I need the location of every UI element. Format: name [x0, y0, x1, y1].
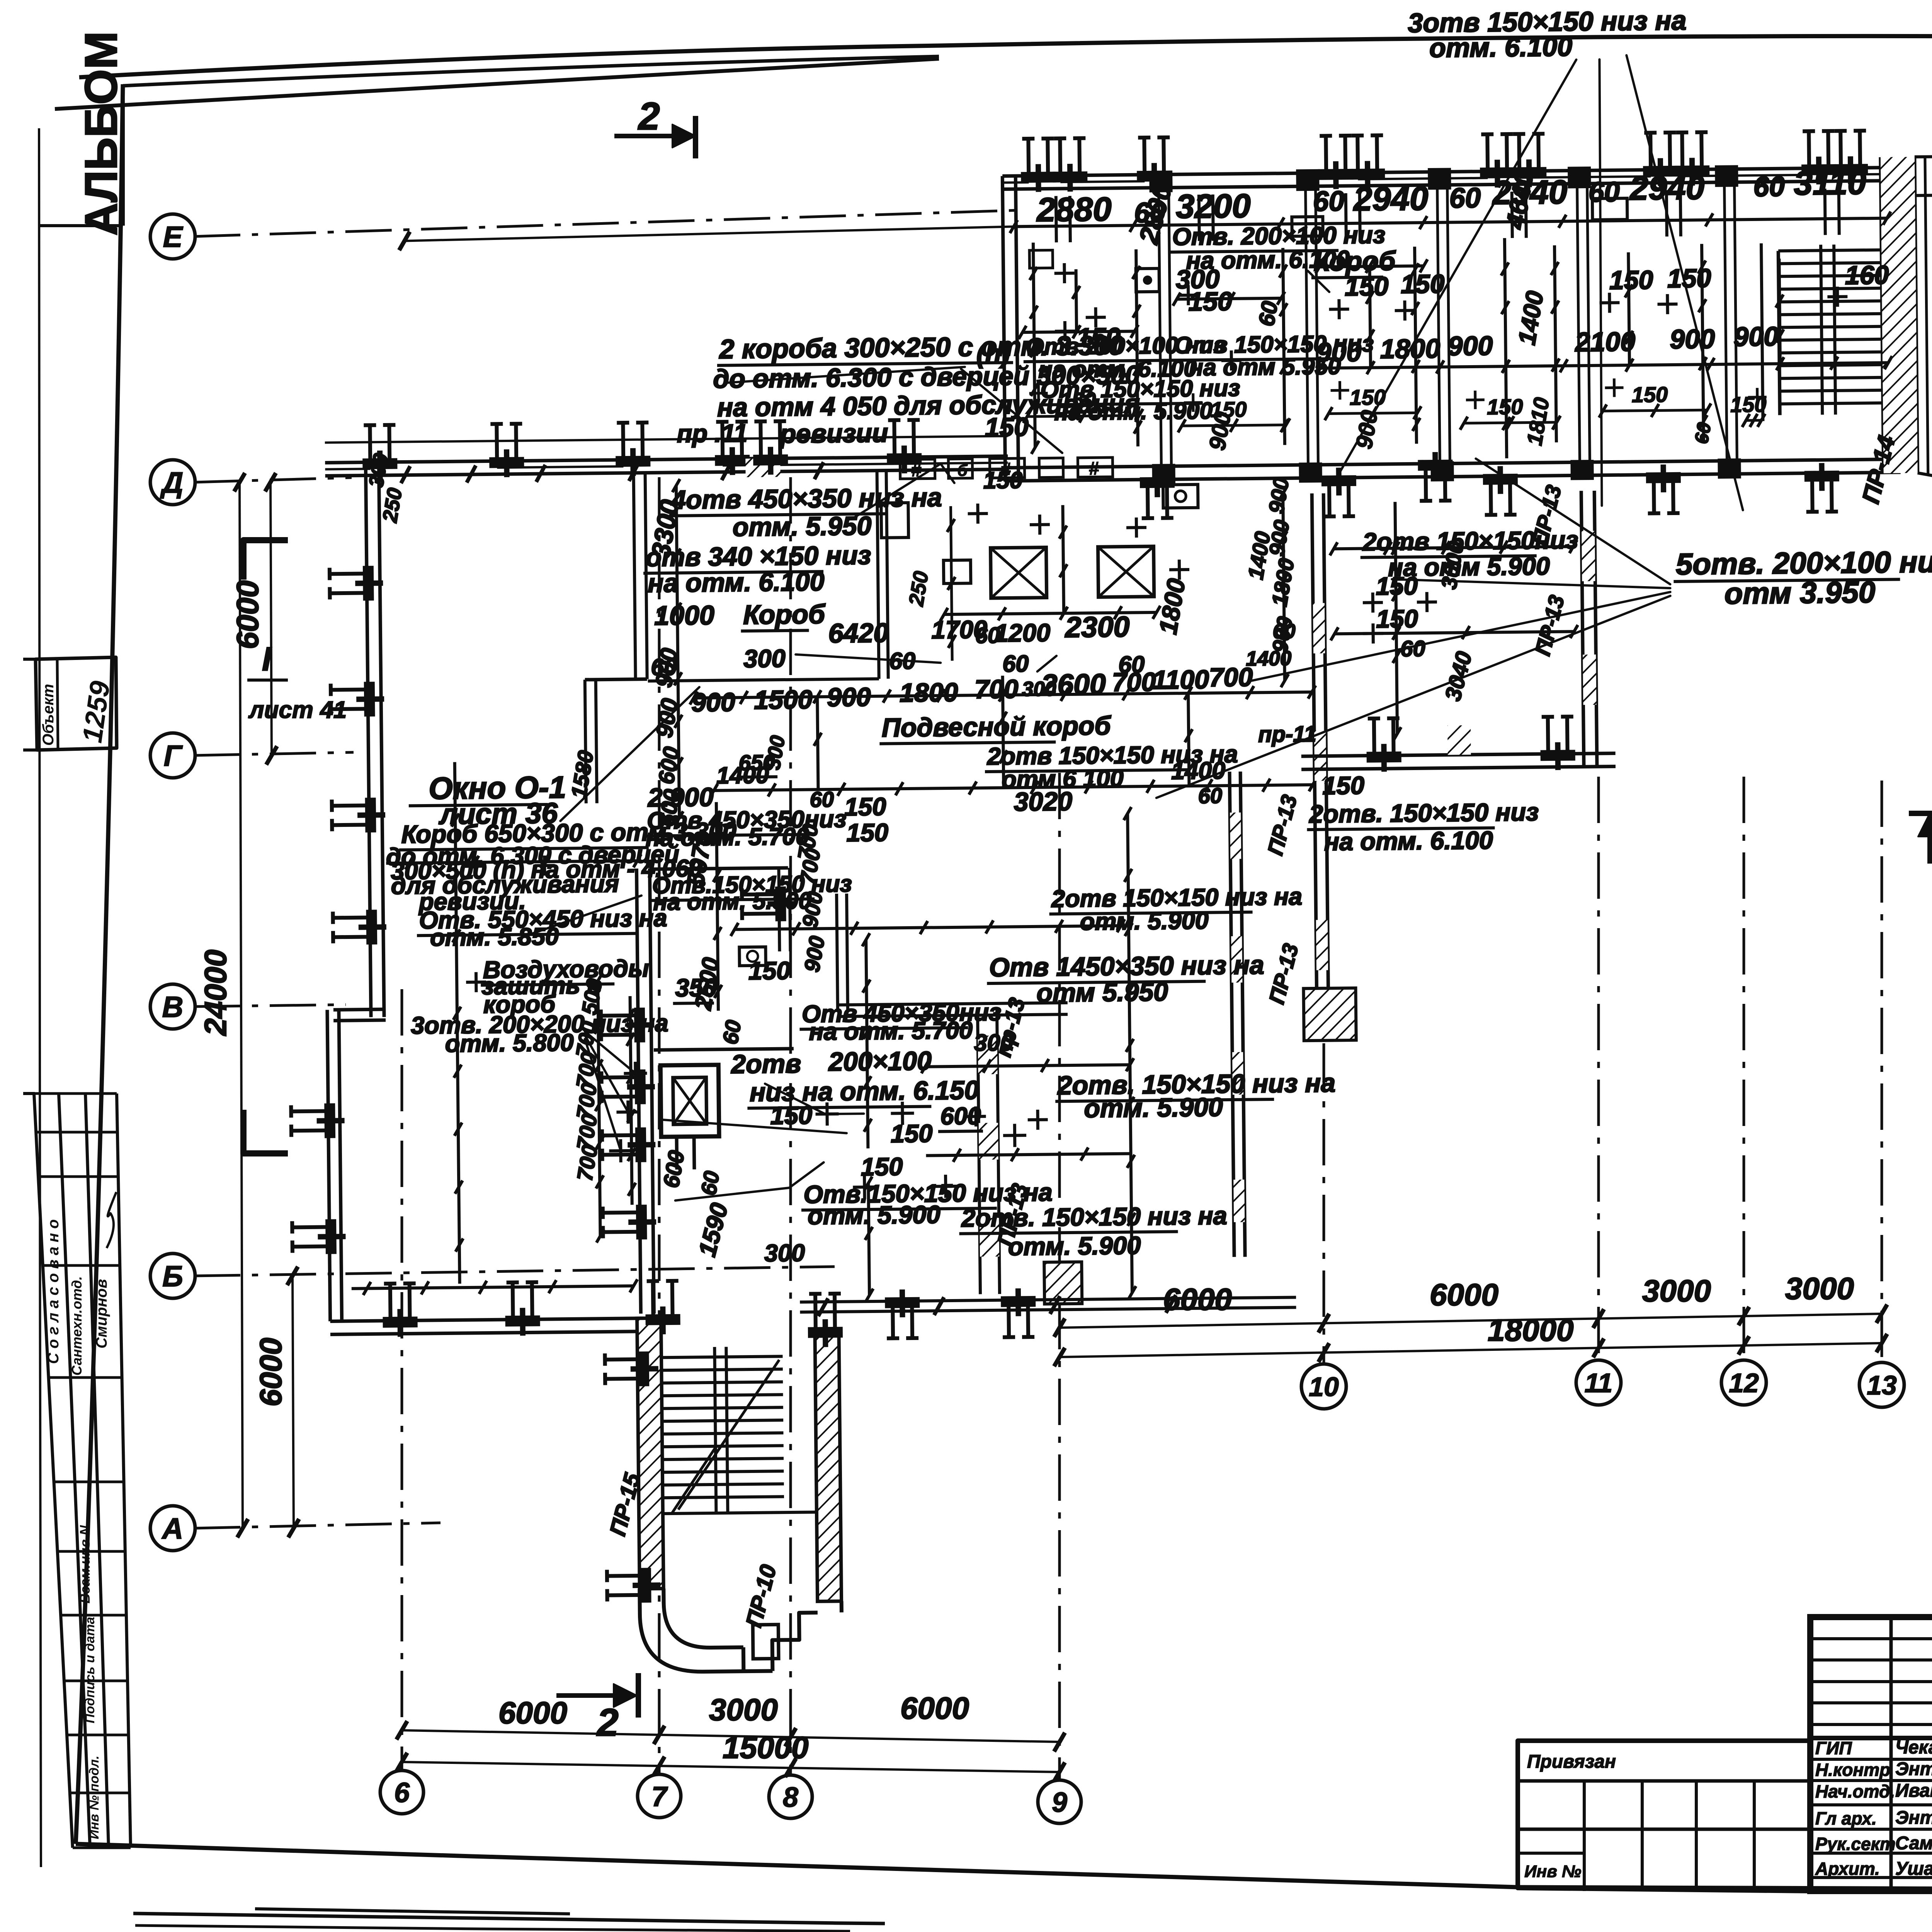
svg-text:150: 150 [1188, 287, 1232, 316]
svg-text:150: 150 [1667, 264, 1711, 293]
svg-text:6000: 6000 [498, 1696, 567, 1730]
svg-text:пр .11: пр .11 [677, 419, 748, 448]
svg-text:150: 150 [1349, 385, 1386, 410]
svg-text:300: 300 [764, 1240, 805, 1267]
svg-text:#: # [1088, 458, 1099, 479]
svg-text:6000: 6000 [253, 1338, 288, 1406]
svg-text:11: 11 [1585, 1368, 1613, 1398]
svg-text:Инв №: Инв № [1524, 1862, 1581, 1881]
svg-text:Сантехн.отд.: Сантехн.отд. [69, 1276, 85, 1376]
svg-text:на отм 4 050 для обслуживания: на отм 4 050 для обслуживания [717, 389, 1140, 422]
svg-text:150: 150 [844, 793, 886, 821]
svg-text:до отм. 6.300 с дверцей 300×50: до отм. 6.300 с дверцей 300×500 [713, 360, 1140, 394]
svg-text:300: 300 [743, 644, 786, 673]
svg-text:2880: 2880 [1036, 190, 1112, 229]
svg-text:60: 60 [651, 654, 677, 680]
svg-text:6: 6 [394, 1777, 410, 1808]
svg-text:Привязан: Привязан [1527, 1752, 1616, 1772]
svg-text:150: 150 [1401, 269, 1445, 299]
svg-text:60: 60 [718, 1018, 746, 1046]
svg-text:Г: Г [164, 740, 183, 772]
svg-text:150: 150 [891, 1119, 933, 1148]
svg-text:2600: 2600 [1040, 668, 1106, 701]
svg-text:150: 150 [1345, 272, 1389, 301]
svg-text:7: 7 [651, 1781, 668, 1812]
svg-text:на отм. 5.700: на отм. 5.700 [645, 823, 809, 851]
svg-text:1200: 1200 [994, 618, 1050, 647]
svg-text:150: 150 [748, 956, 791, 985]
svg-text:150: 150 [1730, 392, 1767, 417]
svg-text:60: 60 [1272, 620, 1296, 643]
svg-text:2: 2 [596, 1701, 619, 1744]
svg-text:1800: 1800 [900, 678, 958, 707]
svg-text:1500: 1500 [754, 685, 813, 714]
svg-text:С о г л а с о в а н о: С о г л а с о в а н о [45, 1219, 62, 1364]
svg-text:600: 600 [940, 1102, 981, 1130]
svg-text:6000: 6000 [900, 1691, 969, 1725]
svg-text:9: 9 [1052, 1787, 1067, 1818]
svg-text:В: В [162, 991, 184, 1024]
svg-text:150: 150 [1631, 382, 1668, 407]
svg-text:А: А [162, 1512, 184, 1545]
svg-text:2отв. 150×150 низ: 2отв. 150×150 низ [1308, 798, 1539, 828]
svg-text:3200: 3200 [1176, 187, 1251, 225]
svg-text:2 короба 300×250 с отм. 3.300: 2 короба 300×250 с отм. 3.300 [718, 330, 1124, 364]
svg-text:160: 160 [1845, 260, 1889, 290]
svg-text:150: 150 [846, 818, 888, 847]
svg-text:отм. 5.950: отм. 5.950 [733, 511, 872, 542]
svg-text:Архит.: Архит. [1815, 1859, 1880, 1879]
svg-text:6000: 6000 [1430, 1277, 1498, 1312]
svg-text:3110: 3110 [1794, 164, 1866, 202]
svg-text:1000: 1000 [654, 600, 715, 631]
svg-text:отм. 5.900: отм. 5.900 [1080, 907, 1209, 935]
svg-text:150: 150 [1376, 571, 1418, 600]
svg-text:60: 60 [1449, 182, 1481, 214]
svg-text:Энтелис: Энтелис [1895, 1759, 1932, 1779]
svg-text:24000: 24000 [198, 950, 233, 1036]
svg-text:Короб: Короб [743, 599, 826, 630]
svg-text:ревизии: ревизии [779, 418, 888, 449]
svg-text:отм 3.950: отм 3.950 [1724, 575, 1875, 611]
svg-text:Смирнов: Смирнов [93, 1279, 110, 1349]
svg-text:отм. 5.900: отм. 5.900 [1008, 1231, 1141, 1260]
svg-text:3020: 3020 [1014, 787, 1072, 816]
svg-text:60: 60 [1198, 783, 1222, 808]
svg-text:900: 900 [1447, 330, 1493, 361]
svg-text:пр-11: пр-11 [1258, 721, 1316, 747]
svg-text:10: 10 [1309, 1372, 1339, 1402]
svg-text:6420: 6420 [828, 617, 889, 648]
svg-text:8: 8 [783, 1782, 798, 1813]
svg-text:700: 700 [1112, 667, 1156, 697]
svg-text:на отм. 5.700: на отм. 5.700 [809, 1017, 973, 1045]
svg-text:1800: 1800 [1380, 333, 1440, 364]
svg-text:#: # [1000, 459, 1011, 480]
svg-text:150: 150 [1609, 265, 1653, 295]
svg-text:900: 900 [691, 687, 735, 717]
svg-text:60: 60 [1690, 421, 1715, 446]
svg-text:3000: 3000 [709, 1692, 778, 1727]
svg-text:отм. 5.900: отм. 5.900 [1084, 1092, 1223, 1123]
svg-text:отм 5.950: отм 5.950 [1036, 977, 1168, 1008]
svg-text:Д: Д [160, 466, 184, 499]
svg-text:Самсонова: Самсонова [1895, 1833, 1932, 1854]
svg-text:отм. 5.900: отм. 5.900 [808, 1200, 940, 1230]
svg-text:60: 60 [1753, 171, 1785, 202]
svg-text:150: 150 [861, 1152, 903, 1181]
svg-text:900: 900 [1733, 321, 1779, 352]
svg-text:700: 700 [975, 674, 1019, 704]
svg-text:Гл арх.: Гл арх. [1815, 1808, 1877, 1828]
svg-text:13: 13 [1867, 1370, 1897, 1400]
svg-text:4отв 450×350 низ на: 4отв 450×350 низ на [670, 483, 942, 515]
svg-text:2940: 2940 [1629, 169, 1704, 207]
svg-text:900: 900 [1316, 337, 1362, 367]
svg-text:на отм. 6.100: на отм. 6.100 [648, 567, 825, 598]
svg-text:60: 60 [1002, 650, 1029, 677]
svg-text:2100: 2100 [1574, 327, 1636, 357]
svg-text:Энтелис: Энтелис [1895, 1808, 1932, 1828]
svg-text:Взам.инв.N: Взам.инв.N [77, 1525, 93, 1604]
svg-text:150: 150 [770, 1101, 812, 1129]
svg-text:отм. 5.800: отм. 5.800 [445, 1029, 574, 1057]
svg-text:2940: 2940 [1352, 180, 1428, 218]
svg-text:Чекалов: Чекалов [1895, 1737, 1932, 1758]
svg-text:Н.контр: Н.контр [1815, 1760, 1890, 1780]
svg-text:2300: 2300 [1064, 611, 1130, 644]
svg-text:б: б [957, 461, 968, 480]
svg-text:15000: 15000 [723, 1730, 808, 1765]
svg-text:Б: Б [162, 1260, 183, 1293]
svg-text:отм. 6.100: отм. 6.100 [1429, 31, 1573, 63]
svg-text:6000: 6000 [230, 580, 265, 649]
svg-text:200×100: 200×100 [828, 1046, 932, 1077]
svg-text:Нач.отд.: Нач.отд. [1815, 1781, 1895, 1801]
svg-text:Подпись и дата: Подпись и дата [83, 1617, 97, 1723]
svg-text:Рук.сект: Рук.сект [1815, 1834, 1896, 1854]
svg-text:1400: 1400 [1171, 757, 1226, 784]
svg-text:18000: 18000 [1488, 1313, 1573, 1347]
svg-text:Подвесной короб: Подвесной короб [882, 711, 1112, 743]
svg-text:1400: 1400 [1246, 647, 1291, 670]
svg-text:(h): (h) [976, 339, 1010, 369]
svg-text:#: # [911, 460, 922, 481]
svg-text:900: 900 [1670, 324, 1715, 354]
svg-text:Иванов: Иванов [1895, 1781, 1932, 1801]
svg-text:отм. 5.850: отм. 5.850 [430, 923, 559, 951]
svg-text:на отм. 5.900: на отм. 5.900 [653, 887, 812, 915]
svg-text:2отв: 2отв [730, 1049, 801, 1079]
svg-text:900: 900 [827, 682, 871, 712]
svg-text:Инв № подл.: Инв № подл. [87, 1755, 102, 1839]
svg-text:60: 60 [696, 1169, 724, 1197]
svg-text:Е: Е [163, 221, 184, 253]
svg-text:60: 60 [1588, 176, 1620, 208]
svg-text:150: 150 [1487, 395, 1523, 419]
svg-text:АЛЬБОМ: АЛЬБОМ [76, 31, 127, 236]
svg-text:2отв. 150×150 низ на: 2отв. 150×150 низ на [961, 1201, 1227, 1232]
svg-text:2: 2 [638, 95, 660, 138]
svg-text:60: 60 [889, 648, 916, 674]
svg-text:1100: 1100 [1152, 665, 1209, 695]
svg-text:3000: 3000 [1642, 1274, 1711, 1308]
svg-text:150: 150 [1376, 604, 1418, 633]
svg-text:60: 60 [1400, 636, 1425, 662]
svg-text:ГИП: ГИП [1815, 1738, 1852, 1758]
svg-text:Объект: Объект [40, 684, 57, 746]
svg-text:на отм. 6.100: на отм. 6.100 [1324, 826, 1493, 856]
svg-text:I: I [262, 641, 272, 678]
svg-text:3000: 3000 [1785, 1271, 1854, 1306]
svg-text:Ушакова Е: Ушакова Е [1895, 1859, 1932, 1879]
svg-text:60: 60 [1254, 299, 1283, 328]
svg-text:12: 12 [1729, 1368, 1759, 1398]
svg-text:60: 60 [1313, 185, 1345, 217]
svg-text:150: 150 [1322, 771, 1364, 800]
